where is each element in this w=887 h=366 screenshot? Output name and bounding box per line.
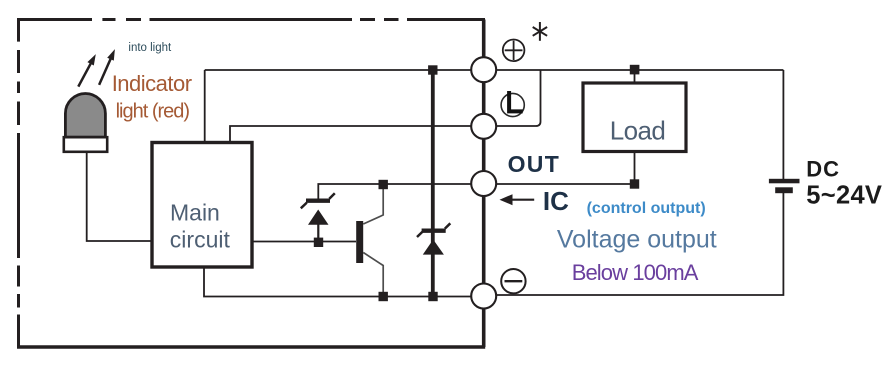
zener diode ZD1 cathode bar [306,199,330,203]
wire: minus return (terminal 4 to battery negative) [484,193,784,295]
wire: main circuit top pin [204,70,206,143]
terminal 1 (+) [471,57,496,82]
junction: OUT line / load bottom [630,179,639,188]
junction: bottom wire / zener ZD2 [428,292,437,301]
junction: plus line / zener branch [428,65,437,74]
svg-text:Voltage output: Voltage output [557,226,717,254]
transistor Q1 base bar [356,221,363,263]
svg-text:DC: DC [806,157,840,182]
main circuit block [152,143,252,268]
wire: plus supply line (terminal 1 to battery) [205,69,784,71]
junction: bottom wire / emitter [379,292,388,301]
plus terminal symbol [503,40,525,62]
junction: OUT line / collector [379,180,388,189]
sensor enclosure border: bottom edge [17,345,485,349]
wire: indicator light to main circuit left pin [87,152,152,241]
svg-text:circuit: circuit [170,226,231,252]
battery positive plate [769,179,800,184]
asterisk note mark [533,22,547,41]
svg-text:(control output): (control output) [587,200,706,217]
zener diode ZD1 cathode bar bent ends [301,193,335,208]
zener diode ZD1 (base clamp) triangle [308,210,329,225]
wire: main circuit right pin to transistor base [252,241,356,243]
svg-text:5~24V: 5~24V [806,182,882,210]
wire: load top pin [634,70,636,84]
transistor Q1 collector lead [363,185,383,224]
sensor enclosure dashed border: left edge [17,18,20,349]
zener diode ZD2 cathode bar [422,229,446,233]
terminal 4 (-) [471,284,496,309]
svg-text:OUT: OUT [508,151,560,177]
emitted light arrow 1 [78,54,96,87]
wire: OUT line (collector node to OUT terminal) [318,184,483,201]
terminal 2 (L) [471,114,496,139]
svg-text:Main: Main [170,200,220,226]
zener diode ZD2 (output clamp) triangle [423,240,444,255]
transistor Q1 emitter lead [363,253,383,297]
zener diode ZD1 anode lead [317,223,319,242]
svg-text:Below 100mA: Below 100mA [572,260,699,285]
junction: plus line / load top [630,65,640,75]
load block [583,83,686,152]
wire: OUT terminal to load bottom [484,183,635,185]
battery negative plate [775,187,793,193]
wire: main circuit bottom pin to minus terminal [204,267,484,297]
junction: base wire / zener ZD1 [314,238,323,247]
wire: surge zener branch (thick vertical) [431,70,435,297]
wire: battery positive drop [782,70,784,179]
emitted light arrow 2 [99,49,115,85]
minus terminal symbol [501,269,525,293]
svg-text:light (red): light (red) [116,100,190,122]
indicator lamp base [64,137,107,152]
terminal rail (right edge of enclosure) [482,20,486,348]
svg-text:Indicator: Indicator [112,71,192,96]
svg-text:IC: IC [543,186,569,216]
IC output arrow [500,194,535,205]
L terminal symbol [501,91,524,117]
wire: L terminal branch [230,126,484,143]
indicator lamp dome [65,94,105,138]
sensor enclosure dashed border: top edge [17,18,485,21]
wire: L terminal to plus line riser [484,70,541,126]
svg-text:into light: into light [128,42,172,54]
terminal 3 (OUT) [471,171,496,196]
svg-text:Load: Load [610,116,665,146]
zener diode ZD2 cathode bar bent ends [417,223,450,237]
wire: load bottom pin [634,151,636,184]
